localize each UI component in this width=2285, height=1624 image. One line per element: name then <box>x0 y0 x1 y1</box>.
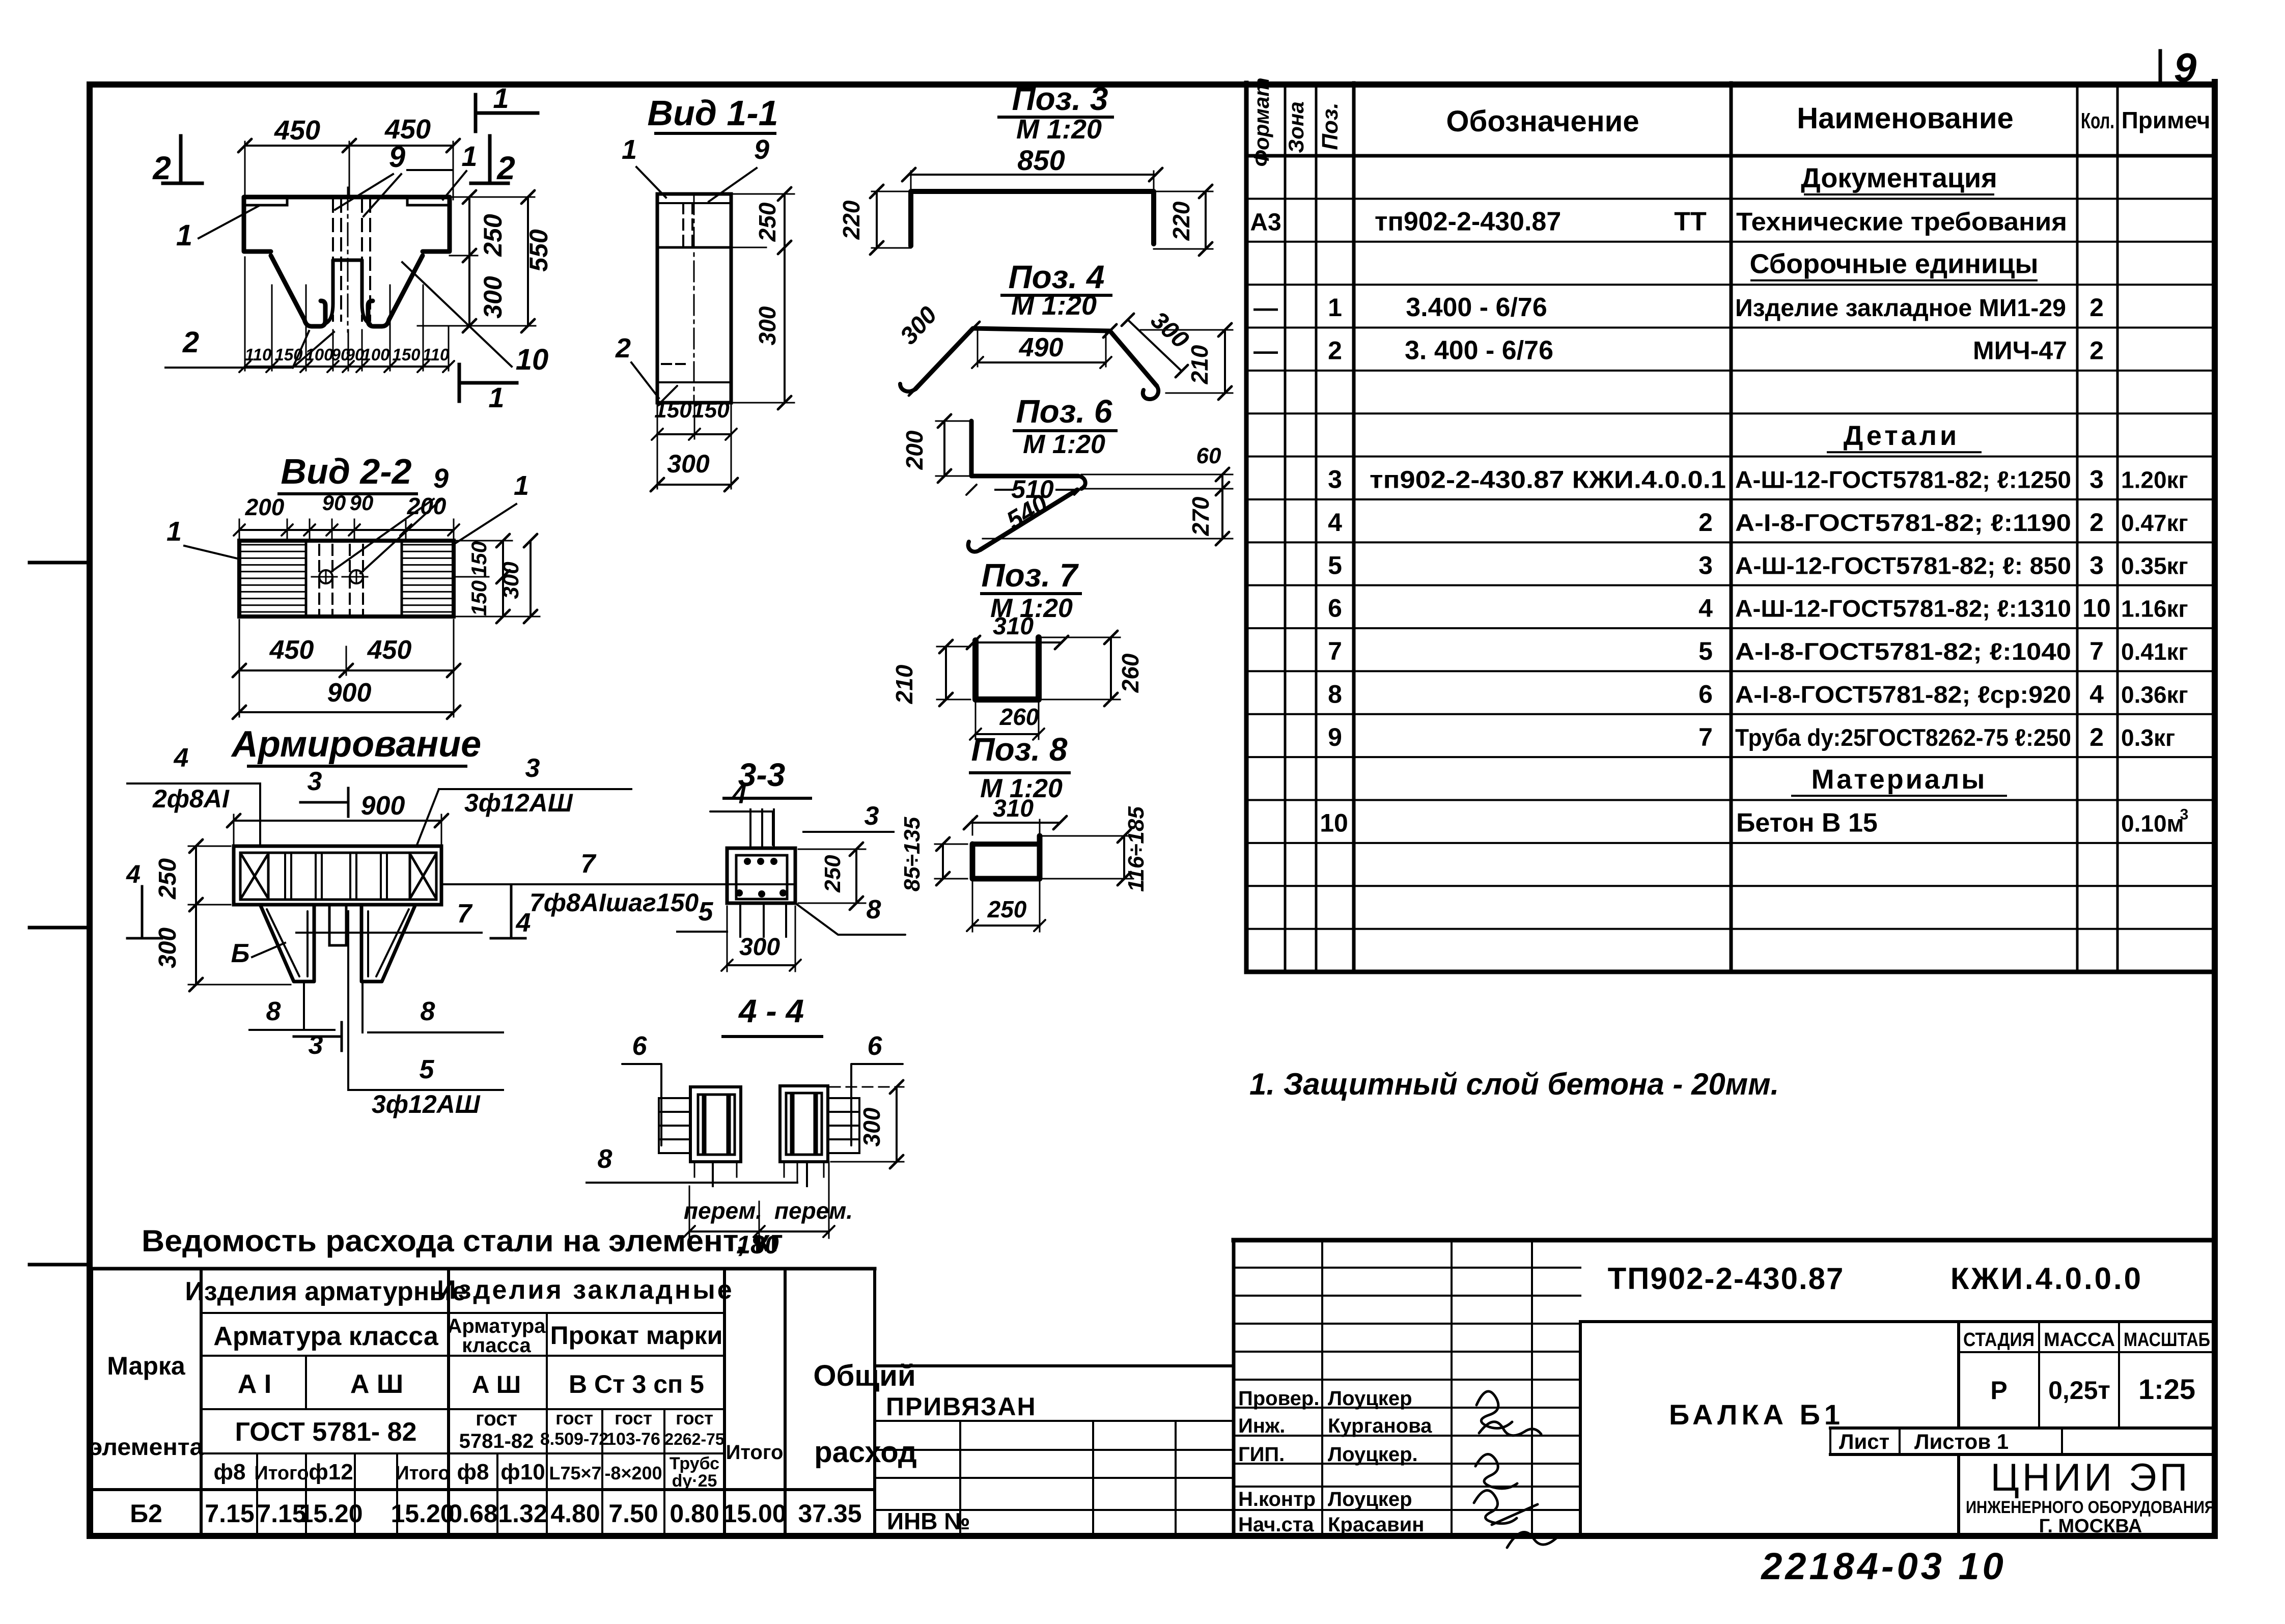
svg-text:7: 7 <box>1698 723 1713 751</box>
svg-text:3: 3 <box>525 753 540 783</box>
svg-text:15.20: 15.20 <box>391 1499 454 1528</box>
svg-text:Поз. 3: Поз. 3 <box>1012 80 1108 117</box>
svg-text:250: 250 <box>754 202 781 242</box>
svg-text:150: 150 <box>392 345 421 364</box>
svg-text:Изделия закладные: Изделия закладные <box>437 1275 734 1305</box>
svg-text:Примеч: Примеч <box>2122 107 2211 133</box>
svg-text:МАСШТАБ: МАСШТАБ <box>2124 1329 2210 1351</box>
svg-text:2: 2 <box>2089 293 2104 322</box>
svg-text:250: 250 <box>820 855 845 893</box>
svg-text:850: 850 <box>1017 144 1065 176</box>
svg-text:гост: гост <box>476 1408 517 1430</box>
svg-text:2: 2 <box>152 150 171 186</box>
svg-text:А-I-8-ГОСТ5781-82; ℓ:1190: А-I-8-ГОСТ5781-82; ℓ:1190 <box>1735 509 2071 536</box>
svg-text:90: 90 <box>350 491 374 515</box>
svg-text:М 1:20: М 1:20 <box>1011 290 1097 321</box>
svg-text:перем.: перем. <box>774 1197 853 1224</box>
svg-text:3: 3 <box>865 801 879 831</box>
svg-text:Вид 2-2: Вид 2-2 <box>281 452 411 491</box>
svg-text:1: 1 <box>488 381 504 413</box>
svg-text:М 1:20: М 1:20 <box>1016 114 1102 145</box>
svg-text:Красавин: Красавин <box>1328 1514 1424 1536</box>
svg-text:1: 1 <box>461 140 477 172</box>
svg-text:Кол.: Кол. <box>2081 108 2114 133</box>
svg-text:Марка: Марка <box>107 1352 186 1380</box>
svg-text:0.80: 0.80 <box>670 1499 719 1528</box>
svg-text:-8×200: -8×200 <box>604 1463 662 1483</box>
svg-text:Материалы: Материалы <box>1812 764 1987 795</box>
svg-text:5: 5 <box>420 1055 435 1084</box>
svg-text:А-Ш-12-ГОСТ5781-82; ℓ: 850: А-Ш-12-ГОСТ5781-82; ℓ: 850 <box>1735 552 2071 579</box>
svg-text:150: 150 <box>467 541 491 577</box>
svg-text:перем.: перем. <box>684 1197 762 1224</box>
svg-text:150: 150 <box>692 398 730 423</box>
svg-text:9: 9 <box>754 134 769 165</box>
svg-text:22184-03 10: 22184-03 10 <box>1760 1545 2007 1587</box>
svg-text:Нач.ста: Нач.ста <box>1238 1514 1314 1536</box>
svg-text:Зона: Зона <box>1284 101 1308 153</box>
svg-text:Арматура класса: Арматура класса <box>213 1322 439 1351</box>
svg-text:0.68: 0.68 <box>448 1499 497 1528</box>
svg-text:ф10: ф10 <box>500 1460 545 1485</box>
svg-text:Технические требования: Технические требования <box>1736 207 2067 236</box>
svg-text:2: 2 <box>182 326 199 359</box>
svg-text:3: 3 <box>308 767 322 796</box>
svg-text:2: 2 <box>615 333 631 363</box>
svg-text:БАЛКА Б1: БАЛКА Б1 <box>1669 1398 1844 1431</box>
svg-text:15.00: 15.00 <box>722 1499 786 1528</box>
svg-text:Вид 1-1: Вид 1-1 <box>647 93 778 133</box>
svg-text:4 - 4: 4 - 4 <box>738 993 804 1029</box>
svg-text:Листов 1: Листов 1 <box>1914 1430 2009 1453</box>
svg-text:7: 7 <box>457 899 473 929</box>
svg-text:2: 2 <box>1328 336 1342 365</box>
svg-text:5: 5 <box>1328 551 1342 579</box>
svg-text:2262-75: 2262-75 <box>664 1430 724 1448</box>
svg-text:210: 210 <box>891 664 917 704</box>
svg-text:3. 400 - 6/76: 3. 400 - 6/76 <box>1405 335 1553 365</box>
svg-text:Детали: Детали <box>1844 421 1960 451</box>
svg-text:0.41кг: 0.41кг <box>2121 638 2188 665</box>
svg-text:8: 8 <box>421 997 435 1026</box>
svg-text:0.47кг: 0.47кг <box>2121 510 2188 536</box>
svg-text:Формат: Формат <box>1249 77 1273 166</box>
svg-text:37.35: 37.35 <box>798 1499 861 1528</box>
svg-text:9: 9 <box>1328 723 1342 751</box>
svg-text:ТТ: ТТ <box>1674 207 1707 236</box>
svg-text:5: 5 <box>1698 637 1713 665</box>
svg-text:МИЧ-47: МИЧ-47 <box>1973 336 2067 365</box>
svg-text:тп902-2-430.87: тп902-2-430.87 <box>1375 207 1561 236</box>
svg-text:ф12: ф12 <box>309 1460 353 1485</box>
svg-text:1: 1 <box>1328 293 1342 322</box>
svg-text:Б: Б <box>231 939 250 968</box>
svg-text:60: 60 <box>1196 443 1221 468</box>
svg-text:А-I-8-ГОСТ5781-82; ℓср:920: А-I-8-ГОСТ5781-82; ℓср:920 <box>1735 681 2071 708</box>
svg-text:Ведомость расхода стали на эле: Ведомость расхода стали на элемент, кг <box>142 1224 783 1258</box>
svg-text:7ф8АIшаг150: 7ф8АIшаг150 <box>530 888 699 917</box>
svg-text:250: 250 <box>154 858 181 900</box>
svg-text:гост: гост <box>555 1408 593 1429</box>
svg-text:1: 1 <box>514 470 529 501</box>
svg-text:450: 450 <box>367 635 412 665</box>
svg-text:2: 2 <box>2089 336 2104 365</box>
svg-text:0.35кг: 0.35кг <box>2121 552 2188 579</box>
svg-text:4: 4 <box>126 860 141 888</box>
svg-text:Поз.: Поз. <box>1318 102 1343 150</box>
svg-text:Трубс: Трубс <box>670 1454 719 1473</box>
svg-text:Армирование: Армирование <box>231 724 481 765</box>
svg-text:1. Защитный слой бетона - 20м: 1. Защитный слой бетона - 20мм. <box>1249 1067 1779 1101</box>
svg-text:ПРИВЯЗАН: ПРИВЯЗАН <box>886 1392 1037 1421</box>
svg-text:класса: класса <box>462 1334 531 1357</box>
svg-text:450: 450 <box>384 114 431 145</box>
svg-text:490: 490 <box>1019 333 1064 362</box>
svg-text:0.3кг: 0.3кг <box>2121 724 2175 751</box>
svg-text:0.36кг: 0.36кг <box>2121 681 2188 708</box>
svg-text:А I: А I <box>238 1369 271 1399</box>
svg-text:270: 270 <box>1187 496 1214 536</box>
svg-text:Лоуцкер: Лоуцкер <box>1328 1488 1412 1510</box>
svg-text:10: 10 <box>2082 594 2111 623</box>
svg-text:3ф12АШ: 3ф12АШ <box>464 789 573 817</box>
svg-text:Поз. 6: Поз. 6 <box>1016 393 1112 430</box>
svg-text:Сборочные единицы: Сборочные единицы <box>1750 249 2039 279</box>
svg-text:1: 1 <box>176 219 192 252</box>
svg-text:Поз. 8: Поз. 8 <box>971 731 1068 768</box>
svg-text:6: 6 <box>868 1031 883 1061</box>
svg-text:Лоуцкер.: Лоуцкер. <box>1328 1443 1418 1466</box>
svg-text:90: 90 <box>322 491 346 515</box>
svg-text:10: 10 <box>1320 809 1348 837</box>
svg-text:3: 3 <box>2180 806 2189 823</box>
svg-text:Труба dу:25ГОСТ8262-75 ℓ:250: Труба dу:25ГОСТ8262-75 ℓ:250 <box>1735 724 2071 751</box>
svg-text:А3: А3 <box>1250 209 1281 236</box>
svg-text:Курганова: Курганова <box>1328 1415 1432 1437</box>
svg-text:550: 550 <box>524 229 553 272</box>
svg-text:450: 450 <box>269 635 314 665</box>
svg-text:0,25т: 0,25т <box>2048 1376 2110 1405</box>
svg-text:2ф8АI: 2ф8АI <box>152 785 230 813</box>
svg-text:А Ш: А Ш <box>350 1369 403 1399</box>
svg-text:900: 900 <box>327 678 372 708</box>
svg-text:—: — <box>1253 338 1278 365</box>
svg-text:Документация: Документация <box>1801 163 1997 193</box>
svg-text:1:25: 1:25 <box>2138 1373 2195 1405</box>
svg-text:3: 3 <box>2089 551 2104 579</box>
svg-text:7: 7 <box>1328 637 1342 665</box>
svg-text:ГОСТ 5781- 82: ГОСТ 5781- 82 <box>235 1417 417 1447</box>
svg-text:Н.контр: Н.контр <box>1238 1488 1316 1510</box>
svg-text:450: 450 <box>274 115 320 146</box>
svg-text:116÷185: 116÷185 <box>1124 806 1149 892</box>
svg-text:1: 1 <box>622 134 637 165</box>
svg-text:2: 2 <box>2089 508 2104 537</box>
svg-text:Итого: Итого <box>395 1463 450 1484</box>
svg-text:0.10м: 0.10м <box>2121 810 2184 837</box>
svg-text:Инж.: Инж. <box>1238 1415 1285 1437</box>
svg-text:300: 300 <box>479 276 507 319</box>
svg-text:МАССА: МАССА <box>2044 1329 2115 1351</box>
svg-text:9: 9 <box>433 463 449 494</box>
svg-text:Г. МОСКВА: Г. МОСКВА <box>2039 1516 2142 1537</box>
svg-text:L75×7: L75×7 <box>549 1463 601 1483</box>
svg-text:9: 9 <box>389 141 405 174</box>
svg-text:Наименование: Наименование <box>1797 102 2014 135</box>
svg-text:1: 1 <box>493 82 509 114</box>
svg-text:300: 300 <box>498 562 523 599</box>
svg-text:100: 100 <box>305 345 333 364</box>
svg-text:3.400 - 6/76: 3.400 - 6/76 <box>1406 293 1547 322</box>
svg-text:тп902-2-430.87 КЖИ.4.0.0.1: тп902-2-430.87 КЖИ.4.0.0.1 <box>1370 467 1726 494</box>
svg-text:8: 8 <box>867 895 881 925</box>
svg-text:10: 10 <box>516 343 549 376</box>
svg-text:элемента: элемента <box>89 1434 204 1460</box>
svg-text:200: 200 <box>901 430 928 470</box>
svg-text:8.509-72: 8.509-72 <box>540 1430 608 1449</box>
svg-text:Итого: Итого <box>726 1441 784 1464</box>
svg-text:3ф12АШ: 3ф12АШ <box>372 1090 481 1118</box>
svg-text:Б2: Б2 <box>130 1499 162 1528</box>
svg-text:260: 260 <box>1117 653 1144 693</box>
svg-text:Итого: Итого <box>254 1463 309 1484</box>
svg-text:210: 210 <box>1186 345 1213 384</box>
svg-text:А-Ш-12-ГОСТ5781-82; ℓ:1250: А-Ш-12-ГОСТ5781-82; ℓ:1250 <box>1735 466 2071 493</box>
svg-text:5: 5 <box>699 897 714 927</box>
svg-text:ф8: ф8 <box>457 1460 489 1485</box>
svg-text:250: 250 <box>479 214 507 257</box>
svg-text:4: 4 <box>1698 594 1713 623</box>
svg-text:ИНЖЕНЕРНОГО ОБОРУДОВАНИЯ: ИНЖЕНЕРНОГО ОБОРУДОВАНИЯ <box>1966 1498 2215 1517</box>
svg-text:Бетон В 15: Бетон В 15 <box>1736 808 1878 838</box>
svg-text:ТП902-2-430.87: ТП902-2-430.87 <box>1608 1262 1845 1296</box>
svg-text:7: 7 <box>2089 637 2104 665</box>
svg-text:1.32: 1.32 <box>498 1499 547 1528</box>
svg-text:3: 3 <box>2089 465 2104 494</box>
svg-text:310: 310 <box>993 613 1034 640</box>
svg-text:100: 100 <box>361 345 390 364</box>
svg-text:1: 1 <box>166 516 182 547</box>
svg-text:гост: гост <box>676 1408 713 1429</box>
svg-text:Общий: Общий <box>813 1359 915 1392</box>
svg-text:4: 4 <box>174 743 189 773</box>
svg-text:4: 4 <box>2089 680 2104 708</box>
svg-text:ЦНИИ ЭП: ЦНИИ ЭП <box>1991 1456 2191 1499</box>
svg-text:dу·25: dу·25 <box>672 1471 717 1491</box>
svg-text:300: 300 <box>739 934 780 961</box>
svg-text:150: 150 <box>467 580 491 616</box>
svg-text:ИНВ №: ИНВ № <box>887 1508 970 1534</box>
svg-text:5781-82: 5781-82 <box>459 1430 534 1452</box>
svg-text:8: 8 <box>598 1144 612 1174</box>
svg-text:3: 3 <box>1328 465 1342 494</box>
svg-text:15.20: 15.20 <box>299 1499 363 1528</box>
svg-text:Р: Р <box>1990 1376 2007 1405</box>
svg-text:300: 300 <box>858 1107 885 1146</box>
svg-text:220: 220 <box>838 200 865 240</box>
svg-text:Обозначение: Обозначение <box>1446 105 1639 138</box>
svg-text:А-Ш-12-ГОСТ5781-82; ℓ:1310: А-Ш-12-ГОСТ5781-82; ℓ:1310 <box>1735 595 2071 622</box>
svg-text:1.16кг: 1.16кг <box>2121 596 2188 622</box>
svg-text:85÷135: 85÷135 <box>900 817 925 891</box>
svg-text:Изделия арматурные: Изделия арматурные <box>185 1277 466 1306</box>
svg-text:6: 6 <box>1328 594 1342 623</box>
svg-text:200: 200 <box>245 494 285 520</box>
svg-text:ф8: ф8 <box>214 1460 246 1485</box>
svg-text:Провер.: Провер. <box>1238 1387 1319 1410</box>
svg-text:103-76: 103-76 <box>606 1430 660 1449</box>
svg-text:гост: гост <box>615 1408 652 1429</box>
svg-text:—: — <box>1253 295 1278 322</box>
svg-text:300: 300 <box>667 450 710 478</box>
svg-text:2: 2 <box>2089 723 2104 751</box>
svg-text:7.15: 7.15 <box>205 1499 254 1528</box>
svg-text:260: 260 <box>999 704 1039 730</box>
svg-text:300: 300 <box>154 928 181 968</box>
svg-text:Прокат марки: Прокат марки <box>550 1321 723 1350</box>
svg-text:расход: расход <box>814 1436 916 1469</box>
svg-text:7.50: 7.50 <box>608 1499 658 1528</box>
svg-text:4: 4 <box>1328 508 1342 537</box>
svg-text:110: 110 <box>245 345 272 364</box>
svg-text:4: 4 <box>516 908 531 938</box>
svg-text:1.20кг: 1.20кг <box>2121 467 2188 493</box>
svg-text:2: 2 <box>1698 508 1713 537</box>
svg-text:9: 9 <box>2174 45 2197 90</box>
svg-text:220: 220 <box>1168 201 1194 241</box>
svg-text:3: 3 <box>1698 551 1713 579</box>
svg-text:7: 7 <box>581 849 597 879</box>
svg-text:3: 3 <box>309 1030 323 1060</box>
svg-text:А Ш: А Ш <box>472 1371 521 1398</box>
svg-text:Лоуцкер: Лоуцкер <box>1328 1387 1412 1410</box>
svg-text:А-I-8-ГОСТ5781-82; ℓ:1040: А-I-8-ГОСТ5781-82; ℓ:1040 <box>1735 638 2071 665</box>
svg-text:Лист: Лист <box>1839 1430 1889 1453</box>
svg-text:КЖИ.4.0.0.0: КЖИ.4.0.0.0 <box>1950 1262 2143 1296</box>
svg-text:4.80: 4.80 <box>550 1499 600 1528</box>
svg-text:2: 2 <box>496 150 515 186</box>
svg-text:150: 150 <box>654 398 692 423</box>
svg-text:ГИП.: ГИП. <box>1238 1443 1285 1466</box>
svg-text:4: 4 <box>732 780 747 809</box>
svg-text:900: 900 <box>361 791 405 821</box>
svg-text:300: 300 <box>754 306 781 345</box>
svg-text:В Ст 3 сп 5: В Ст 3 сп 5 <box>569 1370 704 1398</box>
svg-text:СТАДИЯ: СТАДИЯ <box>1963 1329 2035 1351</box>
svg-text:180: 180 <box>736 1230 779 1259</box>
svg-text:6: 6 <box>632 1031 648 1061</box>
svg-text:200: 200 <box>407 493 447 519</box>
svg-text:Изделие закладное МИ1-29: Изделие закладное МИ1-29 <box>1735 295 2066 322</box>
svg-text:8: 8 <box>266 997 281 1026</box>
svg-text:М 1:20: М 1:20 <box>1023 430 1105 459</box>
svg-text:Поз. 7: Поз. 7 <box>982 557 1079 594</box>
svg-text:6: 6 <box>1698 680 1713 708</box>
svg-text:250: 250 <box>987 896 1027 922</box>
svg-text:110: 110 <box>423 345 450 364</box>
svg-text:310: 310 <box>993 795 1034 822</box>
svg-text:8: 8 <box>1328 680 1342 708</box>
